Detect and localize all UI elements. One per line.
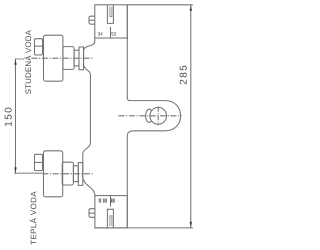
bottom outlet nipple — [89, 209, 95, 218]
arm hose nut ellipse — [146, 109, 153, 122]
hot handle centerline — [42, 173, 93, 175]
arrow 150 top — [14, 59, 16, 65]
arm outlet circle — [150, 107, 167, 124]
arrow 285 bottom — [190, 222, 192, 228]
arrow 150 bottom — [14, 167, 16, 173]
top outlet divider line — [110, 27, 112, 38]
cold handle knob — [44, 35, 63, 81]
tiny label 34 — [98, 32, 103, 35]
hot handle safety button — [35, 154, 43, 170]
dimension text 285 — [180, 66, 187, 85]
bottom outlet knurl ticks — [99, 199, 114, 203]
hot handle outer ring — [78, 163, 83, 186]
dimension text 150 — [5, 108, 12, 126]
label STUDENA VODA — [24, 30, 31, 94]
bottom outlet slot outer — [107, 209, 113, 228]
arm horizontal centerline — [119, 115, 182, 117]
dimension line 285 — [190, 5, 192, 228]
body right profile with shower arm — [127, 5, 180, 228]
arrow 285 top — [190, 5, 192, 11]
cold handle safety button — [35, 39, 43, 55]
top outlet box — [95, 5, 128, 38]
dimension line 150 — [15, 59, 17, 173]
top extension line to dimension 285 — [127, 4, 193, 6]
top outlet nipple midline — [89, 19, 95, 21]
bottom outlet box — [95, 196, 127, 228]
extension line 150 bottom — [14, 172, 42, 174]
bottom outlet divider line — [110, 196, 112, 207]
top outlet nipple — [89, 16, 95, 24]
hot handle recess collar — [73, 166, 78, 182]
cold handle recess collar — [74, 50, 79, 66]
bottom outlet slot inner screw — [110, 216, 112, 226]
arm vertical centerline — [157, 107, 159, 126]
cold handle mid collar — [63, 47, 74, 70]
hot handle knob — [44, 151, 63, 197]
baseline bottom — [95, 227, 193, 229]
top outlet slot inner screw — [110, 7, 112, 17]
top outlet slot outer — [107, 5, 113, 24]
bottom outlet nipple midline — [89, 212, 95, 214]
body left profile — [83, 38, 95, 196]
tiny label 52 — [111, 32, 116, 35]
label TEPLA VODA — [29, 191, 36, 244]
extension line 150 top — [15, 58, 25, 60]
hot handle mid collar — [62, 162, 73, 185]
cold handle outer ring — [79, 47, 84, 70]
cold handle centerline — [32, 57, 94, 59]
